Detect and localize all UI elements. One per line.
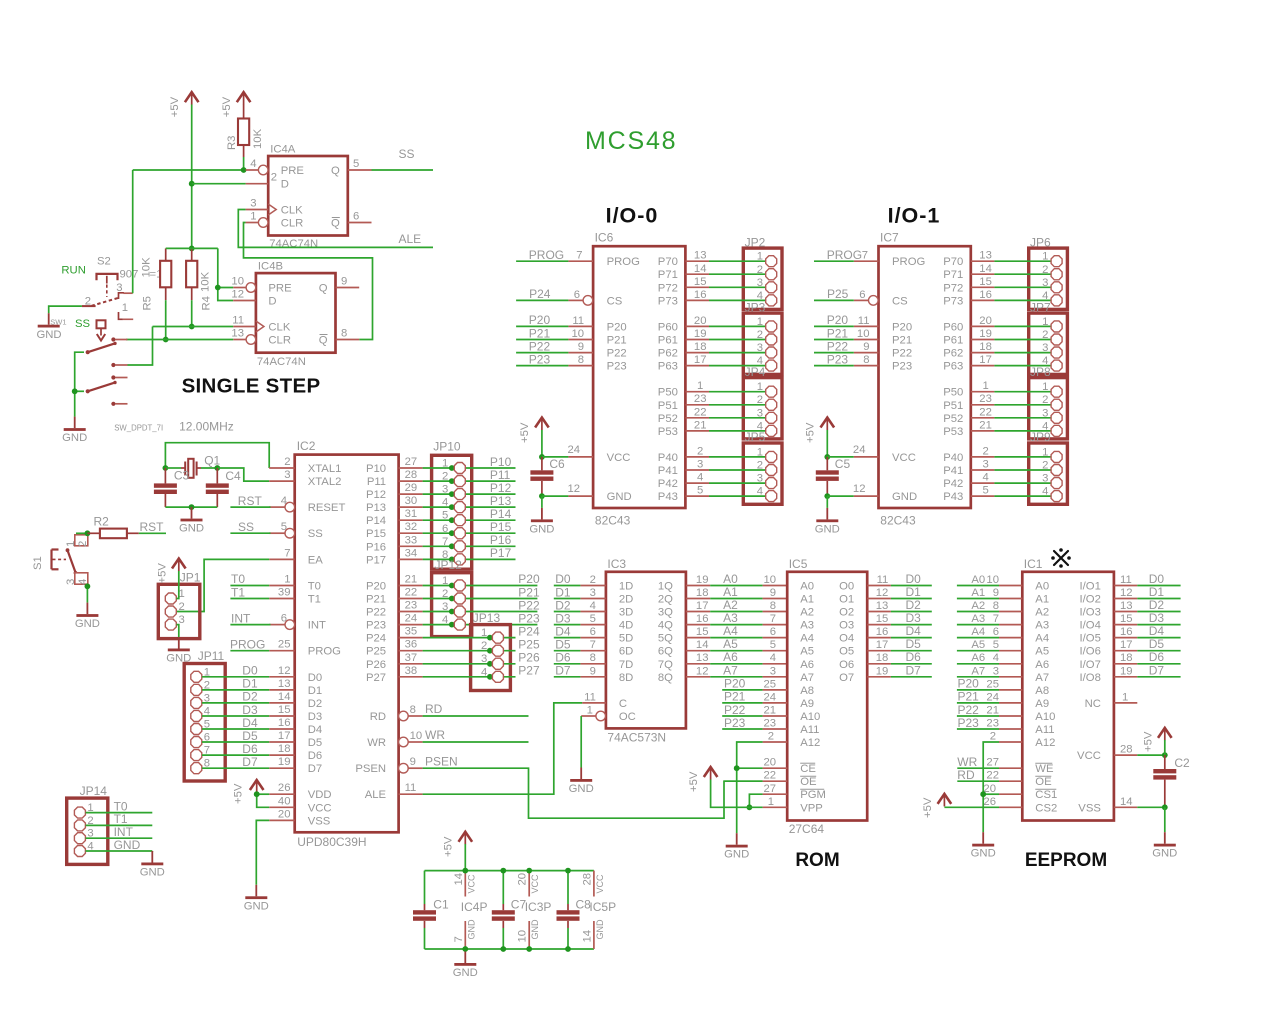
svg-text:19: 19 [694,328,707,340]
label RST [238,494,263,508]
svg-text:UPD80C39H: UPD80C39H [297,835,366,849]
label T0 [231,572,245,586]
svg-text:A3: A3 [800,620,814,632]
label T0 JP14 [114,799,128,813]
wire P16 IC2 to JP10 [423,545,516,547]
svg-text:P20: P20 [724,677,746,691]
pin IC3 8D 9 [580,665,606,677]
ground JP14 [140,851,165,879]
svg-text:JP12: JP12 [435,558,463,572]
pin IC2 SS 5 [269,521,294,538]
svg-text:28: 28 [405,469,418,481]
svg-text:GND: GND [892,491,917,503]
header JP6 [1029,235,1068,309]
svg-text:P11: P11 [490,468,511,482]
pad JP12 3 [442,601,465,617]
svg-text:CS1: CS1 [1035,789,1057,801]
svg-text:P53: P53 [658,426,678,438]
IC IC3 74AC573N latch [606,557,686,745]
svg-text:VCC: VCC [892,452,916,464]
svg-text:P42: P42 [943,478,963,490]
label A7 bus [723,663,738,677]
pad JP12 2 [442,588,465,604]
pad JP2 4 [757,290,777,306]
pad JP9 1 [1042,446,1062,462]
wire C2 gnd [1164,807,1166,832]
label SS [238,520,254,534]
svg-text:19: 19 [278,756,291,768]
ground DPDT [62,417,87,445]
pad JP5 1 [757,446,777,462]
label D5 [242,729,258,743]
svg-text:RD: RD [370,711,386,723]
svg-text:WR: WR [367,737,386,749]
svg-text:D3: D3 [242,703,258,717]
svg-text:D5: D5 [555,638,571,652]
svg-text:8D: 8D [619,672,633,684]
pin IC2 P17 34 [399,547,423,559]
pad JP8 3 [1042,407,1062,423]
pin IC3 4Q 16 [686,613,710,625]
svg-text:XTAL1: XTAL1 [308,463,342,475]
pin IC5 CE 20 [763,757,788,769]
value 12.00MHz [179,420,234,434]
pad JP6 4 [1042,290,1062,306]
pin IC3 5Q 15 [686,626,710,638]
svg-text:PROG: PROG [308,646,341,658]
svg-text:O1: O1 [839,594,854,606]
svg-text:3D: 3D [619,607,633,619]
crystal Q1 [181,454,221,478]
svg-text:P26: P26 [366,659,386,671]
svg-text:NC: NC [1085,698,1101,710]
wire P22 IC2 to JP12 [423,611,538,613]
label A1 eeprom [971,587,985,599]
label P23 rom [724,716,746,730]
wire A5 bus [710,650,762,652]
pin IC2 D4 16 [269,717,295,729]
pin IC1 A9 24 [986,691,1022,703]
svg-text:JP7: JP7 [1030,300,1051,314]
svg-text:INT: INT [308,620,326,632]
wire P21 IC7 [814,339,854,341]
wire D2 JP11 to IC2 [202,702,269,704]
svg-text:2: 2 [284,456,290,468]
svg-text:3: 3 [250,198,256,210]
pad JP10 3 [442,484,465,500]
svg-text:D0: D0 [308,672,322,684]
pin IC5 A1 9 [763,587,788,599]
wire D1 JP11 to IC2 [202,689,269,691]
wire VSS to gnd [1137,806,1165,808]
header JP14 [67,784,108,864]
wire +5V drop [464,844,466,871]
svg-text:D1: D1 [242,677,258,691]
wire JP7 pin2 [971,328,1051,340]
wire WR net [423,741,529,743]
svg-text:2: 2 [271,172,277,184]
svg-text:15: 15 [696,626,709,638]
wire JP4 pin1 [685,380,765,392]
label P21 [518,585,540,599]
svg-text:22: 22 [694,406,707,418]
wire JP6 pin3 [971,276,1051,288]
wire JP8 pin1 [971,380,1051,392]
svg-text:O7: O7 [839,672,854,684]
label INT JP14 [114,825,134,839]
pin IC1 I/O6 17 [1114,639,1137,651]
wire D5 from ROM [891,650,932,652]
wire JP14 gnd drop [151,851,153,852]
wire JP6 pin2 [971,263,1051,275]
svg-text:C4: C4 [225,469,241,483]
pin IC2 D7 19 [269,756,295,768]
label D1 bus [555,585,571,599]
node +5V/R4 junction [189,246,195,252]
svg-text:7Q: 7Q [658,659,673,671]
power +5V ROM [688,766,717,792]
svg-text:P27: P27 [518,664,540,678]
wire cap bank top rail [425,870,594,872]
node cap rail bottom [500,946,506,952]
svg-text:10K: 10K [141,257,153,278]
svg-text:A1: A1 [971,587,985,599]
svg-text:21: 21 [979,419,992,431]
wire A12/CS1 gnd [983,742,999,832]
pin IC5 A2 8 [763,600,788,612]
ground S1 [75,603,100,631]
pin IC2 D1 13 [269,678,295,690]
svg-text:3: 3 [757,342,763,354]
svg-text:D7: D7 [906,663,922,677]
label A2 bus [723,598,738,612]
svg-text:22: 22 [764,770,777,782]
svg-text:R3: R3 [226,136,238,150]
power +5V supply 1 [169,91,198,117]
svg-text:D7: D7 [308,763,322,775]
pin IC1 A3 7 [993,613,1023,625]
svg-text:19: 19 [979,328,992,340]
svg-text:P11: P11 [367,476,386,488]
svg-text:P40: P40 [943,452,963,464]
svg-text:3: 3 [1042,342,1048,354]
svg-text:O6: O6 [839,659,854,671]
svg-text:CLK: CLK [281,205,303,217]
pin IC2 D2 14 [269,691,295,703]
label P20 [518,572,540,586]
wire SS to IC2 [230,532,270,534]
svg-text:I/O5: I/O5 [1080,633,1101,645]
svg-text:P14: P14 [366,515,386,527]
wire A2 bus [710,611,762,613]
svg-text:16: 16 [278,717,291,729]
svg-text:P25: P25 [366,646,386,658]
svg-text:A7: A7 [1035,672,1049,684]
svg-text:CS: CS [607,295,623,307]
pin IC2 T1 39 [269,587,295,599]
label WR eeprom [957,755,977,769]
svg-text:82C43: 82C43 [880,514,916,528]
svg-text:13: 13 [278,678,291,690]
svg-text:A5: A5 [1035,646,1049,658]
svg-text:P12: P12 [490,481,512,495]
svg-text:P22: P22 [724,703,746,717]
svg-text:4: 4 [1042,486,1048,498]
svg-text:P20: P20 [958,677,980,691]
wire C5 to gnd [826,496,828,508]
svg-text:7: 7 [862,250,868,262]
pin IC4B D 12 [231,289,255,301]
pin IC5 A10 21 [763,705,788,717]
header JP7 [1029,300,1068,374]
pin IC3 6D 7 [580,639,606,651]
svg-text:11: 11 [584,691,596,703]
svg-text:4: 4 [697,472,703,484]
label P17 [490,546,512,560]
wire XTAL2 route [217,468,269,481]
svg-text:P62: P62 [658,348,678,360]
pin IC2 P24 35 [399,626,423,638]
label D6 [242,742,258,756]
svg-text:8Q: 8Q [658,672,673,684]
pin IC6 P23 8 [568,354,593,366]
wire JP5 pin2 [685,459,765,471]
svg-text:6: 6 [590,626,596,638]
svg-text:13: 13 [1120,600,1133,612]
pad JP14 2 [74,815,93,831]
wire JP9 pin3 [971,472,1051,484]
label SS net top [399,147,415,161]
ground ROM [724,833,749,861]
pin IC5 A7 3 [763,665,788,677]
svg-text:21: 21 [764,705,777,717]
svg-text:P22: P22 [958,703,980,717]
svg-text:VDD: VDD [308,789,332,801]
svg-text:74AC74N: 74AC74N [257,356,306,368]
svg-text:6: 6 [281,613,287,625]
pad JP11 6 [191,732,210,748]
node S1 gnd junction [85,583,91,589]
svg-text:P24: P24 [529,287,551,301]
pin IC3 3D 4 [580,600,606,612]
pad JP2 2 [757,264,777,280]
svg-text:P71: P71 [658,269,678,281]
node cap rail top [565,868,571,874]
svg-text:14: 14 [278,691,291,703]
svg-text:D5: D5 [1149,637,1165,651]
svg-text:2: 2 [590,574,596,586]
svg-text:5: 5 [697,485,703,497]
svg-text:3: 3 [1042,407,1048,419]
svg-text:Q: Q [331,165,340,177]
pin IC5 O4 16 [867,626,891,638]
wire JP9 pin1 [971,445,1051,457]
svg-text:I/O6: I/O6 [1080,646,1101,658]
wire WR to WE [957,767,999,769]
wire +5V to C2 node [1164,740,1166,755]
svg-text:A1: A1 [800,594,814,606]
svg-text:A9: A9 [800,698,814,710]
svg-text:D4: D4 [1149,624,1165,638]
svg-text:P23: P23 [529,352,551,366]
ground IC3 OC [569,768,594,796]
label A7 eeprom [971,665,985,677]
svg-text:+5V: +5V [519,422,531,443]
pin IC3 C 11 [582,691,606,703]
label D2 bus [555,598,571,612]
svg-text:4: 4 [442,497,448,509]
wire JP8 pin3 [971,406,1051,418]
svg-text:9: 9 [590,665,596,677]
svg-text:WE: WE [1035,763,1054,775]
wire D0 from ROM [891,585,932,587]
svg-text:10: 10 [857,328,870,340]
wire JP5 pin3 [685,472,765,484]
pin IC2 ALE 11 [399,782,423,794]
svg-text:I/O8: I/O8 [1080,672,1101,684]
pin IC2 RD 8 [399,704,423,721]
label A6 bus [723,650,738,664]
label D1 from ROM [906,585,922,599]
svg-text:D5: D5 [906,637,922,651]
svg-text:29: 29 [405,482,418,494]
wire P20 IC6 [516,325,568,327]
label D7 from ROM [906,663,922,677]
svg-text:13: 13 [696,652,709,664]
svg-text:24: 24 [764,691,777,703]
svg-text:P21: P21 [607,335,627,347]
svg-text:9: 9 [993,587,999,599]
svg-text:P27: P27 [366,672,386,684]
svg-text:2: 2 [1042,394,1048,406]
svg-text:A6: A6 [800,659,814,671]
svg-text:15: 15 [694,276,707,288]
svg-text:A3: A3 [1035,620,1049,632]
wire CE to gnd line [737,767,763,769]
wire JP14 T1 [86,824,153,826]
svg-text:P21: P21 [892,335,912,347]
node CE junction [734,765,740,771]
svg-text:11: 11 [572,315,584,327]
svg-text:4: 4 [590,600,596,612]
wire JP2 pin4 [685,289,765,301]
svg-text:I/O3: I/O3 [1080,607,1101,619]
pad JP12 4 [442,614,465,630]
svg-text:P14: P14 [490,507,512,521]
pin IC2 P23 24 [399,613,423,625]
wire S1 pin2 [76,532,87,534]
svg-text:JP14: JP14 [80,784,108,798]
label PROG [230,638,265,652]
svg-text:CLR: CLR [281,218,304,230]
label P27 [518,664,540,678]
pin IC3 4D 5 [580,613,606,625]
svg-text:I/O-0: I/O-0 [606,204,659,228]
label P20 rom [724,677,746,691]
pad JP3 1 [757,316,777,332]
svg-text:D6: D6 [906,650,922,664]
svg-text:RST: RST [238,494,263,508]
pin IC3 6Q 14 [686,639,710,651]
svg-text:A11: A11 [800,724,819,736]
pin IC5 O5 17 [867,639,891,651]
header JP9 [1029,430,1068,504]
svg-text:33: 33 [405,534,418,546]
wire P21 to EEPROM [957,702,999,704]
svg-text:D0: D0 [1149,572,1165,586]
label P20 IC6 [529,313,551,327]
wire GND pin [542,495,569,497]
svg-text:17: 17 [979,354,992,366]
wire P15 IC2 to JP10 [423,532,516,534]
svg-text:A7: A7 [723,663,738,677]
pad JP8 1 [1042,381,1062,397]
svg-text:27: 27 [405,456,418,468]
pad JP3 4 [757,355,777,371]
svg-text:C5: C5 [835,457,851,471]
svg-text:19: 19 [1120,665,1133,677]
pin S2 3 [116,282,132,294]
svg-text:3: 3 [982,459,988,471]
svg-text:A10: A10 [800,711,820,723]
header JP1 [158,571,200,639]
pin IC5 VPP 1 [763,796,788,808]
wire D0 eeprom [1137,585,1180,587]
svg-text:P21: P21 [529,326,551,340]
svg-text:D2: D2 [308,698,322,710]
label A5 bus [723,637,738,651]
pin IC2 P26 37 [399,652,423,664]
svg-text:VSS: VSS [308,815,331,827]
wire D3 to IC3 [554,624,581,626]
svg-text:JP13: JP13 [473,611,501,625]
svg-text:1Q: 1Q [658,581,673,593]
svg-text:11: 11 [877,574,889,586]
svg-text:20: 20 [764,757,777,769]
pin IC2 D0 12 [269,665,295,677]
pin IC2 VDD 26 [269,782,295,794]
wire JP6 pin4 [971,289,1051,301]
wire D6 JP11 to IC2 [202,754,269,756]
pin IC5 O7 19 [867,665,891,677]
svg-text:3: 3 [757,473,763,485]
svg-text:CLR: CLR [268,335,291,347]
wire OE to PSEN [724,780,763,782]
svg-text:2: 2 [481,640,487,652]
label ALE [399,232,422,246]
resistor R3 [226,105,264,158]
svg-text:O4: O4 [839,633,854,645]
svg-text:27: 27 [986,757,999,769]
svg-text:D0: D0 [242,664,258,678]
svg-text:23: 23 [979,393,992,405]
svg-text:P22: P22 [529,339,551,353]
label P10 [490,455,512,469]
pin IC5 O2 13 [867,600,891,612]
node R5/CLR junction [163,337,169,343]
svg-text:2D: 2D [619,594,633,606]
pin IC2 XTAL2 3 [269,469,295,481]
label WR [425,728,445,742]
header JP10 [432,440,472,570]
label P22 rom [724,703,746,717]
label PROG IC6 [529,248,564,262]
ground C5 [815,508,840,536]
wire crystal left link [165,467,181,469]
svg-text:21: 21 [986,705,999,717]
pin IC5 A4 6 [763,626,788,638]
svg-text:28: 28 [1120,744,1133,756]
